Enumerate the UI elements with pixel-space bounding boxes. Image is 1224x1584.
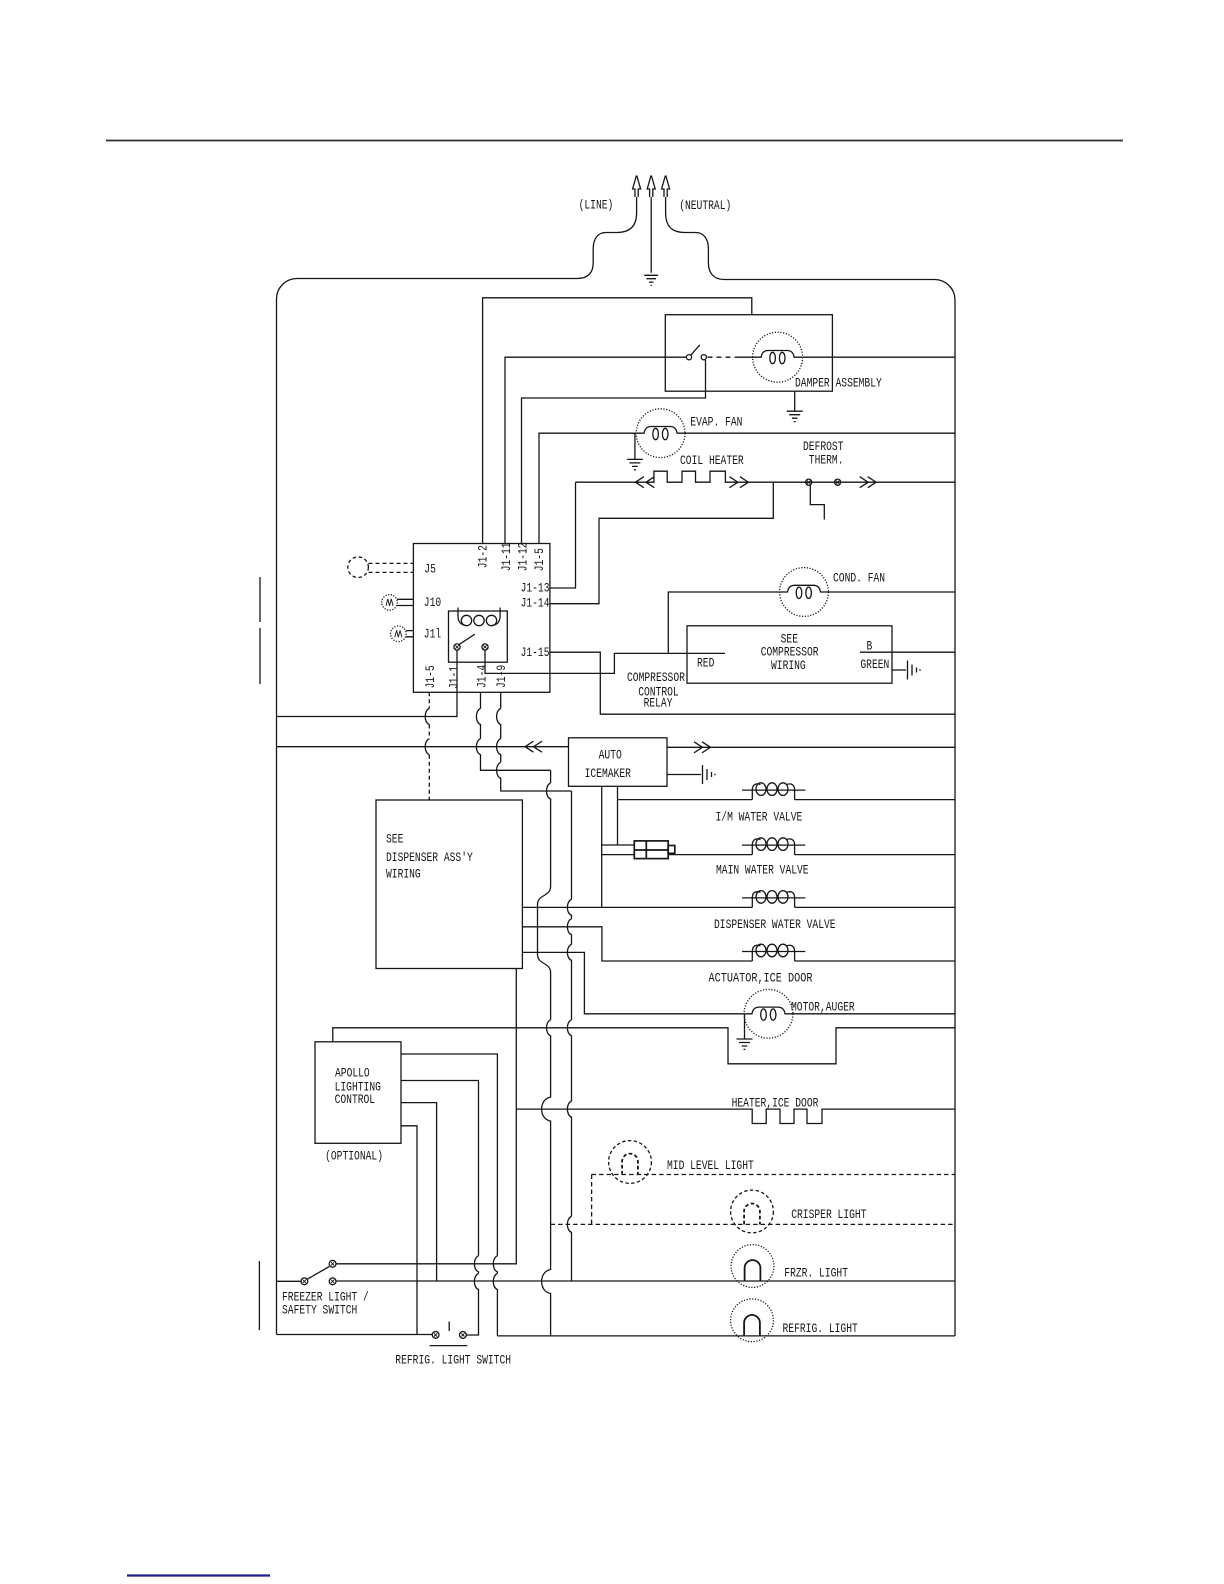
dashed wire mid level light (592, 1175, 955, 1225)
svg-text:J1-15: J1-15 (521, 645, 550, 660)
svg-text:COIL HEATER: COIL HEATER (680, 453, 744, 468)
svg-text:WIRING: WIRING (386, 867, 421, 882)
svg-text:CRISPER LIGHT: CRISPER LIGHT (791, 1207, 866, 1222)
wire dispenser water valve rail (522, 906, 955, 908)
svg-text:J1-2: J1-2 (475, 545, 490, 568)
compressor wiring box (687, 626, 892, 683)
page top rule (106, 140, 1123, 142)
wire J1-12 to damper switch right contact (522, 360, 706, 544)
defrost thermostat terminal left (806, 479, 812, 485)
wire apollo output 3 (401, 1103, 437, 1281)
freezer switch blade (307, 1267, 329, 1280)
svg-text:DISPENSER ASS'Y: DISPENSER ASS'Y (386, 850, 473, 865)
wire auger motor ground stem (744, 1015, 746, 1040)
heater ice door element rail (516, 1109, 955, 1123)
wire J1-13 to coil heater (550, 482, 576, 588)
wire J1-11 to damper switch (505, 357, 686, 543)
wire freezer light rail (336, 1280, 955, 1282)
svg-text:REFRIG. LIGHT SWITCH: REFRIG. LIGHT SWITCH (395, 1353, 511, 1368)
coil heater element and defrost rail to right border (576, 471, 956, 482)
J11 thermistor (391, 626, 407, 642)
inline connector (main water valve) (634, 841, 675, 859)
svg-text:REFRIG. LIGHT: REFRIG. LIGHT (783, 1321, 858, 1336)
arrow chevrons left of coil heater (635, 477, 644, 488)
wire damper motor to right border (803, 356, 955, 358)
ground (evap fan) (627, 459, 643, 469)
defrost thermostat terminal right (835, 479, 841, 485)
J10 leads (397, 599, 413, 605)
wire evap fan ground stem (634, 433, 636, 459)
solenoid actuator ice door (742, 952, 805, 962)
margin tick 2 (259, 628, 261, 684)
plug prong (NEUTRAL) (662, 176, 670, 198)
freezer light lamp (731, 1245, 774, 1288)
svg-text:J1-9: J1-9 (494, 665, 509, 688)
arrow chevrons icemaker output (694, 742, 703, 753)
svg-text:DAMPER ASSEMBLY: DAMPER ASSEMBLY (795, 375, 882, 390)
wire J1-5 to evap fan (539, 433, 636, 543)
bottom blue link line (127, 1574, 270, 1576)
svg-text:COMPRESSOR: COMPRESSOR (627, 670, 685, 685)
svg-text:MAIN WATER VALVE: MAIN WATER VALVE (716, 863, 809, 878)
wire GREEN to chassis ground (892, 669, 906, 671)
svg-text:THERM.: THERM. (809, 452, 844, 467)
control board connector box (413, 544, 550, 693)
mechanical link dashes (damper) (708, 356, 736, 358)
wire J1-15 to right border (550, 652, 955, 714)
wire dispenser box to actuator rail (522, 927, 955, 961)
svg-text:CONTROL: CONTROL (335, 1092, 376, 1107)
wire: ground prong stem (650, 197, 652, 273)
svg-text:RED: RED (697, 655, 715, 670)
svg-text:J1-11: J1-11 (499, 542, 514, 571)
wire I/M water valve rail (618, 799, 956, 801)
refrig switch right terminal (460, 1332, 467, 1339)
svg-text:MID LEVEL LIGHT: MID LEVEL LIGHT (667, 1158, 754, 1173)
svg-text:J5: J5 (424, 561, 436, 576)
svg-text:J10: J10 (424, 595, 441, 610)
ground (damper) (787, 411, 803, 421)
wire evap fan to right border (685, 432, 955, 434)
margin tick 3 (258, 1261, 260, 1330)
damper motor (753, 332, 803, 382)
wire refrig light rail (497, 1335, 955, 1337)
damper switch left contact (686, 355, 691, 360)
wire J1-4 (476, 692, 550, 770)
wire icemaker pin to main water valve (601, 786, 603, 907)
refrig switch base bar (430, 1345, 468, 1347)
freezer switch lower contact (329, 1278, 336, 1285)
svg-text:AUTO: AUTO (599, 747, 622, 762)
svg-text:HEATER,ICE DOOR: HEATER,ICE DOOR (732, 1095, 819, 1110)
svg-text:ICEMAKER: ICEMAKER (585, 766, 631, 781)
chassis ground (icemaker) (703, 765, 716, 784)
wire damper box to ground (794, 391, 796, 411)
svg-text:J1-13: J1-13 (521, 581, 550, 596)
svg-text:J1-5: J1-5 (423, 665, 438, 688)
wire main water valve rail (668, 854, 955, 856)
wire apollo output 4 (401, 1126, 417, 1335)
svg-text:(LINE): (LINE) (579, 198, 614, 213)
damper switch blade (691, 345, 700, 355)
J5 connector dashed circle (348, 557, 369, 578)
wire dispenser box to auger motor (522, 952, 744, 1013)
relay U1 box (449, 611, 508, 662)
arrow chevrons into icemaker (525, 741, 534, 752)
wire link to damper motor (736, 356, 754, 358)
svg-text:J1-14: J1-14 (521, 596, 550, 611)
svg-text:RELAY: RELAY (644, 695, 673, 710)
wire apollo output 1 (401, 1054, 497, 1336)
svg-text:MOTOR,AUGER: MOTOR,AUGER (791, 1000, 855, 1015)
wire left border bottom to refrig switch (277, 1334, 433, 1336)
J5 dashed leads (369, 563, 414, 572)
svg-text:FRZR. LIGHT: FRZR. LIGHT (784, 1265, 848, 1280)
svg-text:J1-4: J1-4 (475, 665, 490, 688)
svg-text:GREEN: GREEN (860, 657, 889, 672)
mid level light lamp (609, 1141, 652, 1184)
ground (auger motor) (737, 1039, 753, 1049)
wire J1-9 (497, 692, 572, 791)
svg-text:J1-5: J1-5 (532, 548, 547, 571)
arrow chevrons right of defrost thermostat (860, 477, 869, 488)
svg-text:EVAP. FAN: EVAP. FAN (690, 415, 742, 430)
wire left border to freezer switch (277, 1280, 302, 1282)
relay contact left (454, 644, 460, 650)
relay contact right (482, 644, 488, 650)
auto icemaker box (569, 738, 668, 787)
wire J1-1 to left border (277, 650, 458, 717)
svg-text:WIRING: WIRING (771, 658, 806, 673)
margin tick 1 (259, 577, 261, 622)
ground (plug) (644, 275, 658, 285)
wire J1-5 dashed to dispenser box (428, 692, 430, 708)
plug prong middle (ground) (647, 176, 655, 198)
svg-text:(OPTIONAL): (OPTIONAL) (325, 1149, 383, 1164)
wire cond fan to right border (828, 591, 955, 593)
solenoid main water valve (742, 845, 805, 855)
refrig light lamp (731, 1299, 774, 1342)
auger motor (744, 989, 793, 1038)
crisper light lamp (731, 1190, 774, 1233)
wire tap to cond fan (668, 592, 779, 653)
defrost thermostat actuator staircase (810, 485, 824, 519)
cond fan motor (780, 568, 829, 617)
svg-text:I/M WATER VALVE: I/M WATER VALVE (716, 809, 803, 824)
plug prong (LINE) (633, 176, 641, 198)
svg-text:SAFETY SWITCH: SAFETY SWITCH (282, 1303, 357, 1318)
svg-text:APOLLO: APOLLO (335, 1066, 370, 1081)
wire J1-2 to damper box (483, 298, 752, 544)
relay blade (459, 634, 475, 644)
dashed wire crisper light (551, 1223, 955, 1225)
damper switch right contact (701, 355, 706, 360)
solenoid I/M water valve (742, 790, 805, 800)
svg-text:(NEUTRAL): (NEUTRAL) (679, 198, 731, 213)
wire apollo control to right border (dips under auger motor) (333, 1028, 955, 1064)
wire icemaker pin to I/M water valve (617, 786, 619, 845)
svg-text:J1-1: J1-1 (447, 666, 462, 689)
J10 thermistor (382, 595, 398, 611)
wire to inline connector (602, 845, 635, 855)
evap fan motor (636, 409, 685, 458)
wire: neutral prong to top border and right border (666, 197, 955, 1336)
refrig switch plunger stem (448, 1322, 450, 1332)
freezer switch upper contact (329, 1260, 336, 1267)
svg-text:DISPENSER WATER VALVE: DISPENSER WATER VALVE (714, 917, 836, 932)
svg-text:ACTUATOR,ICE DOOR: ACTUATOR,ICE DOOR (709, 970, 813, 985)
wire auger motor to right border (793, 1013, 955, 1015)
svg-text:J1-12: J1-12 (515, 542, 530, 571)
svg-text:COND. FAN: COND. FAN (833, 571, 885, 586)
see dispenser assy wiring box (376, 800, 522, 969)
wire apollo output 2 (401, 1081, 479, 1336)
wire icemaker output to right border (667, 746, 955, 748)
damper assembly box (665, 315, 832, 392)
wire B terminal to right border (860, 651, 955, 653)
wire: line prong to top border and left border (277, 197, 637, 1335)
svg-text:SEE: SEE (386, 832, 404, 847)
chassis ground (compressor green) (908, 661, 921, 680)
refrig switch left terminal (432, 1332, 439, 1339)
relay coil (458, 608, 500, 616)
wire J1-14 to coil heater right side (550, 482, 773, 604)
freezer switch common terminal (301, 1278, 308, 1285)
svg-text:B: B (867, 639, 873, 654)
svg-text:J1l: J1l (424, 626, 442, 641)
apollo lighting control box (315, 1042, 401, 1144)
wire left border to auto icemaker (277, 746, 569, 748)
wire relay contact to RED terminal (485, 650, 725, 673)
wire icemaker to chassis ground (667, 774, 701, 776)
solenoid dispenser water valve (742, 898, 805, 908)
J11 leads (406, 631, 413, 637)
wire dispenser box bottom to freezer switch upper contact (336, 969, 516, 1264)
arrow chevrons right of coil heater (729, 477, 738, 488)
